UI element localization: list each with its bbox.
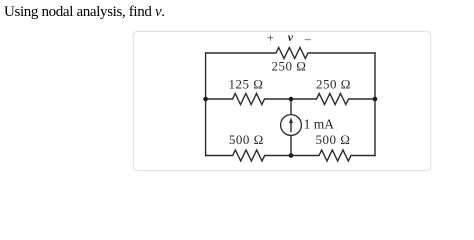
svg-text:250 Ω: 250 Ω: [272, 59, 307, 74]
svg-text:500 Ω: 500 Ω: [316, 132, 351, 147]
svg-text:+: +: [267, 31, 274, 45]
svg-text:250 Ω: 250 Ω: [316, 77, 351, 92]
svg-text:500 Ω: 500 Ω: [229, 132, 264, 147]
svg-text:–: –: [304, 32, 312, 46]
svg-text:125 Ω: 125 Ω: [229, 77, 264, 92]
svg-text:v: v: [288, 30, 294, 44]
svg-text:1 mA: 1 mA: [304, 117, 335, 132]
